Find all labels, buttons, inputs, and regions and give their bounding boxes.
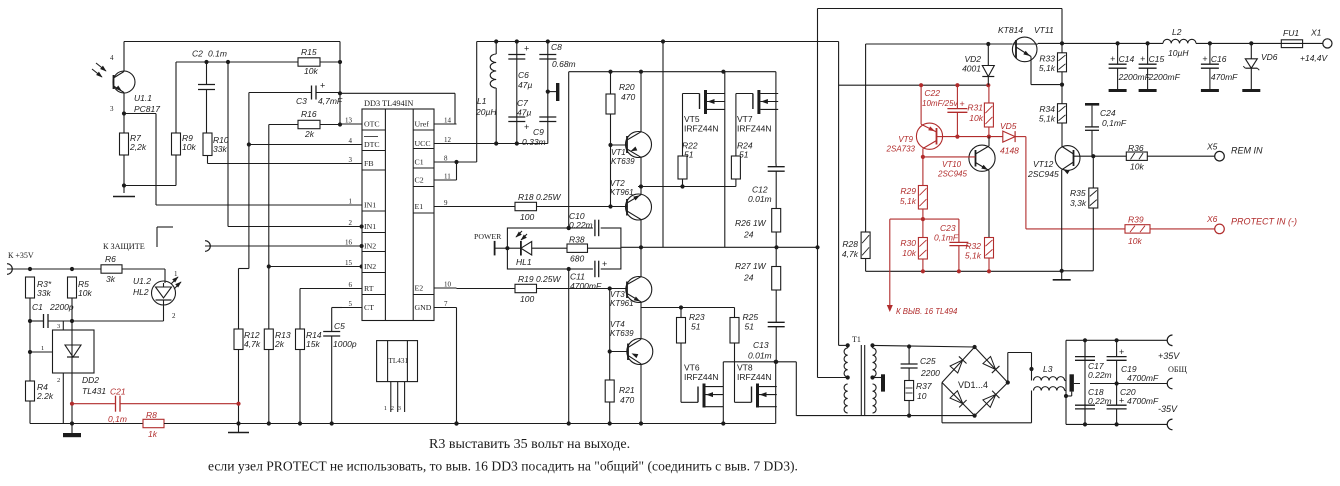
svg-text:5: 5 bbox=[349, 300, 353, 308]
svg-text:1k: 1k bbox=[148, 429, 158, 439]
svg-text:R15: R15 bbox=[301, 47, 317, 57]
svg-text:X6: X6 bbox=[1206, 214, 1218, 224]
svg-text:C25: C25 bbox=[920, 356, 936, 366]
svg-text:5,1k: 5,1k bbox=[900, 196, 917, 206]
svg-text:4700mF: 4700mF bbox=[1127, 373, 1159, 383]
svg-text:DTC: DTC bbox=[364, 140, 380, 149]
svg-text:KT639: KT639 bbox=[611, 157, 635, 166]
svg-text:+: + bbox=[1140, 54, 1145, 64]
svg-text:9: 9 bbox=[444, 199, 448, 207]
svg-text:0.1m: 0.1m bbox=[208, 49, 227, 59]
svg-text:PC817: PC817 bbox=[134, 104, 160, 114]
svg-text:4148: 4148 bbox=[1000, 146, 1019, 156]
svg-text:C3: C3 bbox=[296, 96, 307, 106]
svg-text:24: 24 bbox=[743, 273, 754, 283]
svg-text:GND: GND bbox=[415, 303, 432, 312]
svg-text:если узел PROTECT не использов: если узел PROTECT не использовать, то вы… bbox=[208, 459, 798, 475]
svg-text:3: 3 bbox=[349, 156, 353, 164]
svg-text:33k: 33k bbox=[213, 144, 227, 154]
svg-text:C9: C9 bbox=[533, 127, 544, 137]
svg-text:T1: T1 bbox=[852, 335, 861, 344]
svg-text:C14: C14 bbox=[1119, 54, 1135, 64]
svg-text:5,1k: 5,1k bbox=[1039, 114, 1056, 124]
svg-text:2: 2 bbox=[57, 377, 60, 384]
svg-text:10k: 10k bbox=[1130, 162, 1144, 172]
svg-text:10: 10 bbox=[917, 391, 927, 401]
svg-text:R32: R32 bbox=[965, 241, 981, 251]
svg-text:3: 3 bbox=[110, 105, 114, 113]
svg-text:C8: C8 bbox=[551, 42, 562, 52]
svg-text:К ВЫВ. 16 TL494: К ВЫВ. 16 TL494 bbox=[896, 307, 958, 316]
svg-text:VD6: VD6 bbox=[1261, 52, 1278, 62]
svg-text:R35: R35 bbox=[1070, 188, 1086, 198]
svg-text:4,7mF: 4,7mF bbox=[318, 96, 343, 106]
svg-text:10k: 10k bbox=[969, 113, 983, 123]
svg-text:VT5: VT5 bbox=[684, 114, 700, 124]
svg-text:0.22m: 0.22m bbox=[1088, 370, 1112, 380]
svg-text:IRFZ44N: IRFZ44N bbox=[684, 372, 718, 382]
svg-text:10k: 10k bbox=[304, 66, 318, 76]
svg-text:3,3k: 3,3k bbox=[1070, 198, 1087, 208]
svg-text:FU1: FU1 bbox=[1283, 28, 1299, 38]
svg-text:TL431: TL431 bbox=[82, 386, 106, 396]
svg-text:C5: C5 bbox=[334, 321, 345, 331]
svg-text:16: 16 bbox=[345, 239, 353, 247]
svg-text:R18 0.25W: R18 0.25W bbox=[518, 192, 561, 202]
svg-text:+: + bbox=[1119, 347, 1124, 357]
svg-text:2k: 2k bbox=[274, 339, 285, 349]
svg-text:VT8: VT8 bbox=[737, 363, 753, 373]
svg-text:DD3 TL494IN: DD3 TL494IN bbox=[364, 99, 413, 108]
svg-text:7: 7 bbox=[444, 300, 448, 308]
svg-text:0.22m: 0.22m bbox=[569, 220, 593, 230]
svg-text:C15: C15 bbox=[1149, 54, 1165, 64]
svg-text:680: 680 bbox=[570, 254, 584, 264]
svg-text:0,1m: 0,1m bbox=[108, 414, 127, 424]
svg-text:VT7: VT7 bbox=[737, 114, 753, 124]
svg-text:14: 14 bbox=[444, 117, 452, 125]
svg-text:IN2: IN2 bbox=[364, 262, 376, 271]
svg-text:0.01m: 0.01m bbox=[748, 194, 772, 204]
svg-text:2.2k: 2.2k bbox=[36, 391, 54, 401]
svg-text:PROTECT IN (-): PROTECT IN (-) bbox=[1231, 217, 1297, 227]
svg-text:OTC: OTC bbox=[364, 120, 380, 129]
svg-text:X1: X1 bbox=[1310, 28, 1322, 38]
svg-text:VT4: VT4 bbox=[610, 320, 625, 329]
svg-text:R16: R16 bbox=[301, 109, 317, 119]
svg-text:VD5: VD5 bbox=[1000, 121, 1017, 131]
svg-text:10µH: 10µH bbox=[1168, 48, 1189, 58]
svg-text:20µH: 20µH bbox=[475, 107, 497, 117]
svg-text:VT6: VT6 bbox=[684, 363, 700, 373]
svg-text:C7: C7 bbox=[517, 98, 528, 108]
svg-text:C24: C24 bbox=[1100, 108, 1116, 118]
svg-text:1: 1 bbox=[349, 198, 353, 206]
svg-text:U1.2: U1.2 bbox=[133, 276, 151, 286]
svg-text:IRFZ44N: IRFZ44N bbox=[684, 124, 718, 134]
svg-text:10k: 10k bbox=[182, 142, 196, 152]
svg-text:VT12: VT12 bbox=[1033, 159, 1054, 169]
svg-text:VT1: VT1 bbox=[611, 148, 626, 157]
svg-text:15: 15 bbox=[345, 259, 353, 267]
svg-text:4700mF: 4700mF bbox=[570, 281, 602, 291]
svg-text:0.33m: 0.33m bbox=[522, 137, 546, 147]
svg-text:C11: C11 bbox=[570, 272, 585, 282]
svg-text:+: + bbox=[1119, 396, 1124, 406]
svg-text:C6: C6 bbox=[518, 70, 529, 80]
svg-text:IRFZ44N: IRFZ44N bbox=[737, 372, 771, 382]
svg-text:DD2: DD2 bbox=[82, 375, 99, 385]
svg-text:1: 1 bbox=[41, 345, 44, 352]
svg-text:100: 100 bbox=[520, 212, 534, 222]
svg-text:L1: L1 bbox=[477, 96, 487, 106]
svg-text:2200: 2200 bbox=[920, 368, 940, 378]
svg-text:2SC945: 2SC945 bbox=[1027, 169, 1059, 179]
svg-text:IN2: IN2 bbox=[364, 242, 376, 251]
svg-text:L3: L3 bbox=[1043, 364, 1053, 374]
svg-text:10: 10 bbox=[444, 281, 452, 289]
svg-text:10mF/25v: 10mF/25v bbox=[922, 99, 959, 108]
svg-text:1000p: 1000p bbox=[333, 339, 357, 349]
svg-text:4: 4 bbox=[110, 54, 114, 62]
svg-text:L2: L2 bbox=[1172, 27, 1182, 37]
svg-text:0,1mF: 0,1mF bbox=[1102, 118, 1127, 128]
svg-text:REM IN: REM IN bbox=[1231, 146, 1263, 156]
svg-text:47µ: 47µ bbox=[518, 80, 532, 90]
svg-text:+: + bbox=[602, 259, 607, 269]
svg-text:VD1...4: VD1...4 bbox=[958, 380, 988, 390]
svg-text:CT: CT bbox=[364, 303, 374, 312]
svg-text:HL2: HL2 bbox=[133, 287, 149, 297]
svg-text:POWER: POWER bbox=[474, 232, 502, 241]
svg-text:R6: R6 bbox=[105, 254, 116, 264]
svg-text:R26 1W: R26 1W bbox=[735, 218, 767, 228]
svg-text:C21: C21 bbox=[110, 387, 126, 397]
svg-text:E2: E2 bbox=[415, 284, 424, 293]
svg-text:1: 1 bbox=[384, 405, 387, 412]
svg-text:R3 выставить 35 вольт на выход: R3 выставить 35 вольт на выходе. bbox=[429, 437, 630, 452]
svg-text:2: 2 bbox=[172, 312, 176, 320]
svg-text:2200mF: 2200mF bbox=[1148, 72, 1181, 82]
svg-text:+: + bbox=[524, 44, 529, 54]
svg-text:UCC: UCC bbox=[415, 139, 431, 148]
svg-text:10k: 10k bbox=[1128, 236, 1142, 246]
svg-text:C1: C1 bbox=[32, 302, 43, 312]
svg-text:C13: C13 bbox=[753, 340, 769, 350]
svg-text:IN1: IN1 bbox=[364, 201, 376, 210]
svg-text:IN1: IN1 bbox=[364, 222, 376, 231]
svg-text:KT961: KT961 bbox=[610, 299, 634, 308]
svg-text:E1: E1 bbox=[415, 202, 424, 211]
svg-text:R19 0.25W: R19 0.25W bbox=[518, 274, 561, 284]
svg-text:R23: R23 bbox=[689, 312, 705, 322]
svg-text:4,7k: 4,7k bbox=[842, 249, 859, 259]
svg-text:Uref: Uref bbox=[415, 120, 430, 129]
svg-text:VT2: VT2 bbox=[610, 179, 625, 188]
svg-text:R38: R38 bbox=[569, 235, 585, 245]
svg-text:VT10: VT10 bbox=[942, 160, 962, 169]
svg-text:U1.1: U1.1 bbox=[134, 93, 152, 103]
svg-text:4001: 4001 bbox=[962, 64, 981, 74]
svg-text:2: 2 bbox=[391, 405, 394, 412]
svg-text:2200mF: 2200mF bbox=[1118, 72, 1151, 82]
svg-text:10k: 10k bbox=[902, 248, 916, 258]
svg-text:R31: R31 bbox=[967, 103, 983, 113]
svg-text:4: 4 bbox=[349, 137, 353, 145]
svg-text:3k: 3k bbox=[106, 274, 116, 284]
svg-text:-35V: -35V bbox=[1158, 404, 1178, 414]
svg-text:0.68m: 0.68m bbox=[552, 59, 576, 69]
svg-text:R34: R34 bbox=[1039, 104, 1055, 114]
svg-text:2,2k: 2,2k bbox=[129, 142, 147, 152]
svg-text:15k: 15k bbox=[306, 339, 320, 349]
svg-text:RT: RT bbox=[364, 284, 374, 293]
svg-text:ОБЩ: ОБЩ bbox=[1168, 365, 1188, 374]
svg-text:К +35V: К +35V bbox=[8, 251, 34, 260]
svg-text:R29: R29 bbox=[900, 186, 916, 196]
svg-text:3: 3 bbox=[398, 405, 401, 412]
svg-text:R25: R25 bbox=[743, 312, 759, 322]
svg-text:10k: 10k bbox=[78, 288, 92, 298]
svg-text:C23: C23 bbox=[940, 223, 956, 233]
svg-text:+: + bbox=[960, 99, 965, 109]
svg-text:12: 12 bbox=[444, 136, 452, 144]
svg-text:100: 100 bbox=[520, 294, 534, 304]
svg-text:0.01m: 0.01m bbox=[748, 351, 772, 361]
svg-text:R30: R30 bbox=[900, 238, 916, 248]
svg-text:13: 13 bbox=[345, 117, 353, 125]
svg-text:KT961: KT961 bbox=[610, 188, 634, 197]
svg-text:C2: C2 bbox=[192, 49, 203, 59]
svg-text:VT11: VT11 bbox=[1034, 25, 1054, 35]
svg-text:3: 3 bbox=[57, 323, 60, 330]
svg-text:VT9: VT9 bbox=[898, 135, 913, 144]
svg-text:R28: R28 bbox=[842, 239, 858, 249]
svg-text:К ЗАЩИТЕ: К ЗАЩИТЕ bbox=[103, 242, 145, 251]
svg-text:HL1: HL1 bbox=[516, 257, 532, 267]
svg-text:R36: R36 bbox=[1128, 143, 1144, 153]
svg-text:R20: R20 bbox=[619, 82, 635, 92]
svg-text:470: 470 bbox=[620, 395, 634, 405]
svg-text:C16: C16 bbox=[1211, 54, 1227, 64]
svg-text:1: 1 bbox=[174, 270, 178, 278]
svg-text:FB: FB bbox=[364, 159, 374, 168]
svg-text:5,1k: 5,1k bbox=[1039, 63, 1056, 73]
svg-text:2: 2 bbox=[349, 219, 353, 227]
svg-text:2SA733: 2SA733 bbox=[886, 145, 916, 154]
svg-text:2k: 2k bbox=[304, 129, 315, 139]
svg-text:R37: R37 bbox=[916, 381, 932, 391]
svg-text:+: + bbox=[524, 122, 529, 132]
svg-text:R27 1W: R27 1W bbox=[735, 261, 767, 271]
svg-text:+: + bbox=[320, 81, 325, 91]
svg-text:2SC945: 2SC945 bbox=[937, 170, 967, 179]
svg-text:5,1k: 5,1k bbox=[965, 251, 982, 261]
svg-text:VD2: VD2 bbox=[964, 54, 981, 64]
svg-text:4,7k: 4,7k bbox=[244, 339, 261, 349]
svg-text:470mF: 470mF bbox=[1211, 72, 1238, 82]
svg-text:4700mF: 4700mF bbox=[1127, 396, 1159, 406]
svg-text:47µ: 47µ bbox=[517, 108, 531, 118]
svg-text:R8: R8 bbox=[146, 410, 157, 420]
svg-text:KT814: KT814 bbox=[998, 25, 1023, 35]
svg-text:R21: R21 bbox=[619, 385, 635, 395]
svg-text:+35V: +35V bbox=[1158, 351, 1180, 361]
svg-text:24: 24 bbox=[743, 230, 754, 240]
svg-text:470: 470 bbox=[621, 92, 635, 102]
svg-text:33k: 33k bbox=[37, 288, 51, 298]
svg-text:2200p: 2200p bbox=[49, 302, 74, 312]
svg-text:C2: C2 bbox=[415, 176, 424, 185]
svg-text:VT3: VT3 bbox=[610, 290, 625, 299]
svg-text:51: 51 bbox=[691, 322, 701, 332]
svg-text:+: + bbox=[1110, 54, 1115, 64]
svg-text:TL431: TL431 bbox=[389, 357, 409, 365]
svg-text:11: 11 bbox=[444, 173, 451, 181]
svg-text:0,1mF: 0,1mF bbox=[934, 233, 959, 243]
svg-text:X5: X5 bbox=[1206, 142, 1218, 152]
svg-text:0.22m: 0.22m bbox=[1088, 396, 1112, 406]
svg-text:51: 51 bbox=[745, 322, 755, 332]
svg-text:C12: C12 bbox=[752, 185, 768, 195]
svg-text:IRFZ44N: IRFZ44N bbox=[737, 124, 771, 134]
svg-text:+14,4V: +14,4V bbox=[1300, 53, 1329, 63]
svg-text:R33: R33 bbox=[1039, 54, 1055, 64]
svg-text:C22: C22 bbox=[924, 88, 940, 98]
svg-text:R39: R39 bbox=[1128, 215, 1144, 225]
svg-text:8: 8 bbox=[444, 155, 448, 163]
svg-text:KT639: KT639 bbox=[610, 329, 634, 338]
svg-text:C1: C1 bbox=[415, 158, 424, 167]
svg-text:+: + bbox=[1202, 54, 1207, 64]
svg-text:6: 6 bbox=[349, 281, 353, 289]
